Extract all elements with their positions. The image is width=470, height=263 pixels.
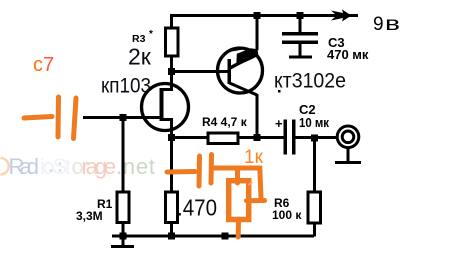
wire: source down to 470 resistor bbox=[170, 139, 173, 192]
label кт3102е bbox=[274, 70, 346, 93]
svg-text:ioSt: ioSt bbox=[40, 154, 71, 179]
label R6 100 к bbox=[272, 196, 302, 222]
watermark logo arc bbox=[1, 158, 9, 175]
wire: +9V top rail bbox=[170, 14, 358, 17]
node: emitter/C2 junction bbox=[254, 134, 261, 141]
output connector J1 bbox=[335, 126, 361, 164]
svg-text:470 мк: 470 мк bbox=[327, 47, 369, 62]
node: Q1 source junction bbox=[168, 134, 175, 141]
wire: R4 to emitter node bbox=[238, 136, 284, 139]
node: R3 bottom / base junction bbox=[168, 68, 175, 75]
svg-text:1к: 1к bbox=[244, 147, 264, 168]
svg-text:Rad: Rad bbox=[9, 154, 40, 179]
stray dot bbox=[278, 90, 281, 93]
resistor R3 bbox=[166, 16, 179, 72]
node: stray junction on rail bbox=[222, 233, 229, 240]
node: R6 top junction bbox=[311, 135, 318, 142]
label R4 4,7 к bbox=[202, 115, 248, 129]
resistor R4 bbox=[208, 133, 238, 144]
svg-text:+: + bbox=[275, 116, 283, 131]
node: collector-rail junction bbox=[254, 12, 261, 19]
watermark text RadioStorage.net bbox=[9, 154, 156, 179]
annotation capacitor (orange, mid) bbox=[167, 155, 265, 201]
transistor Q1 кп103 (JFET) bbox=[142, 72, 189, 137]
node: 470-ground junction bbox=[168, 233, 175, 240]
capacitor C3 bbox=[282, 17, 318, 59]
svg-text:rage: rage bbox=[82, 154, 117, 179]
resistor R6 bbox=[308, 192, 321, 237]
svg-text:7: 7 bbox=[43, 54, 54, 76]
svg-text:9: 9 bbox=[373, 14, 384, 35]
label R3* bbox=[132, 29, 153, 45]
capacitor C2 bbox=[275, 116, 296, 155]
wire: down to R1 bbox=[122, 119, 125, 192]
node: R1-ground junction bbox=[120, 233, 127, 240]
wire: emitter down to R4 node bbox=[256, 94, 259, 136]
label кп103 bbox=[101, 75, 151, 98]
label R1 3,3M bbox=[76, 197, 113, 223]
resistor R (470) bbox=[166, 192, 178, 237]
wire: down to R6 bbox=[313, 139, 316, 192]
wire: junction to Q2 base bbox=[171, 70, 229, 73]
annotation c7 (orange) bbox=[33, 54, 54, 76]
svg-text:в: в bbox=[385, 14, 400, 35]
transistor Q2 кт3102е (NPN) bbox=[218, 48, 263, 95]
wire: source to R4 bbox=[173, 136, 208, 139]
wire: gate wire bbox=[83, 116, 161, 119]
node: C3-rail junction bbox=[297, 12, 304, 19]
annotation 1к (orange) bbox=[244, 147, 264, 168]
svg-text:100 к: 100 к bbox=[272, 208, 302, 222]
resistor R1 bbox=[117, 192, 129, 237]
label 9в bbox=[373, 14, 400, 35]
svg-text:кт3102е: кт3102е bbox=[274, 70, 346, 93]
arrow on 9V rail bbox=[331, 10, 352, 22]
label C2 10 мк bbox=[299, 102, 329, 130]
label 470 bbox=[177, 195, 217, 221]
svg-text:.470: .470 bbox=[177, 195, 217, 221]
svg-text:R4 4,7 к: R4 4,7 к bbox=[202, 115, 248, 129]
annotation resistor 1к (orange) bbox=[229, 168, 252, 237]
svg-text:2к: 2к bbox=[128, 44, 152, 70]
svg-text:*: * bbox=[149, 29, 153, 40]
svg-text:10 мк: 10 мк bbox=[299, 115, 329, 130]
wire: collector up to rail bbox=[256, 16, 259, 50]
ground symbol bbox=[111, 237, 134, 248]
annotation capacitor (orange, at gate) bbox=[24, 97, 76, 139]
svg-text:кп103: кп103 bbox=[101, 75, 151, 98]
svg-text:3,3М: 3,3М bbox=[76, 209, 103, 223]
label C3 470 мк bbox=[327, 35, 369, 62]
node: gate / R1 junction bbox=[120, 114, 127, 121]
svg-text:c: c bbox=[33, 54, 43, 76]
label 2к bbox=[128, 44, 152, 70]
wire: bottom ground rail bbox=[112, 235, 314, 238]
wire: C2 to output bbox=[296, 136, 338, 139]
